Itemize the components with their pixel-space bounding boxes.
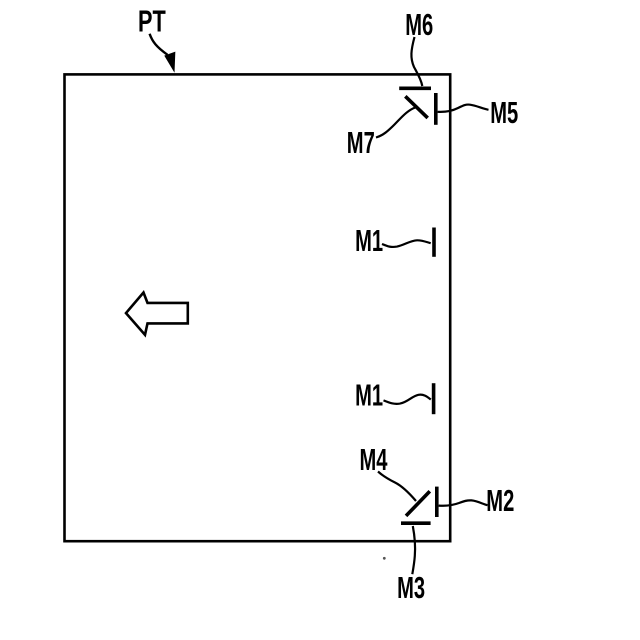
svg-text:M2: M2 <box>486 482 514 518</box>
mirror M6 (horizontal bar) <box>399 87 431 91</box>
svg-text:M7: M7 <box>347 124 375 160</box>
leader M7 <box>376 108 415 138</box>
svg-text:M1: M1 <box>355 223 383 259</box>
leader M3 <box>412 526 415 574</box>
mirror M3 (horizontal bar) <box>401 521 431 525</box>
leader M1 (upper) <box>382 240 431 247</box>
mirror M5 (vertical bar) <box>434 93 438 125</box>
mirror M1 (upper vertical bar) <box>432 228 436 257</box>
svg-text:M5: M5 <box>490 94 518 130</box>
mirror M4 (diagonal bar) <box>406 491 430 516</box>
leader M6 <box>411 37 422 86</box>
mirror M7 (diagonal bar) <box>405 96 427 118</box>
svg-text:M4: M4 <box>360 442 388 478</box>
svg-text:M1: M1 <box>355 377 383 413</box>
big hollow arrow pointing left <box>126 293 188 335</box>
leader M5 <box>438 105 489 112</box>
svg-text:PT: PT <box>138 4 166 39</box>
mirror M1 (lower vertical bar) <box>432 383 436 414</box>
svg-text:M6: M6 <box>405 6 433 42</box>
leader M1 (lower) <box>384 395 431 404</box>
leader arrow from PT to rectangle top edge <box>150 34 168 55</box>
mirror M2 (vertical bar) <box>435 487 439 517</box>
stray speck <box>383 557 386 560</box>
svg-text:M3: M3 <box>397 570 425 606</box>
photosensitive body PT rectangle <box>65 74 451 541</box>
leader M2 <box>439 500 488 505</box>
leader M4 <box>378 472 416 502</box>
